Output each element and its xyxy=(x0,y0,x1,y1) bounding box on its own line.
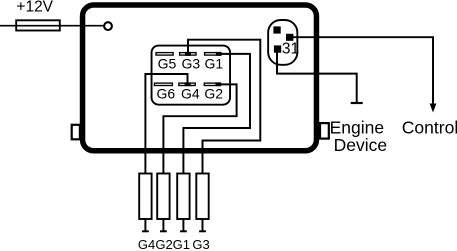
glow plug G1 lower lead xyxy=(182,219,184,231)
engine device terminal bar xyxy=(351,102,363,104)
left mounting tab xyxy=(72,125,80,140)
connector 31 outline xyxy=(268,20,297,65)
svg-text:G3: G3 xyxy=(182,56,201,72)
svg-text:G3: G3 xyxy=(192,237,209,251)
pin bar G6 xyxy=(154,83,172,85)
glow plug G3 terminal bar xyxy=(199,230,206,232)
svg-text:G4: G4 xyxy=(138,237,155,251)
svg-text:Control: Control xyxy=(402,118,457,138)
glow plug G1 terminal bar xyxy=(180,230,187,232)
wire G3 pin to glow plug G3 xyxy=(188,40,260,174)
node 30 terminal circle xyxy=(104,22,112,30)
svg-text:+12V: +12V xyxy=(16,0,53,16)
pin bar G5 xyxy=(156,53,173,56)
connector 31 pin square right xyxy=(286,34,293,41)
svg-text:G4: G4 xyxy=(181,86,200,102)
svg-text:G2: G2 xyxy=(155,237,172,251)
svg-text:31: 31 xyxy=(282,40,299,57)
right mounting tab xyxy=(320,123,329,139)
svg-text:G6: G6 xyxy=(156,86,175,102)
glow plug G4 body xyxy=(139,174,151,220)
wire control output to arrow xyxy=(293,37,434,105)
connector 31 pin square top-left xyxy=(273,26,280,33)
junction nub G4 bar / wire xyxy=(185,82,191,86)
glow plug G1 body xyxy=(177,174,189,220)
wire G1 pin to glow plug G1 xyxy=(183,54,250,174)
connector block outline xyxy=(152,46,231,105)
glow plug G4 terminal bar xyxy=(142,230,149,232)
pin bar G1 xyxy=(205,53,221,56)
glow plug G3 lower lead xyxy=(202,219,204,231)
pin bar G2 xyxy=(204,83,220,85)
glow plug G2 body xyxy=(157,174,169,220)
svg-text:G2: G2 xyxy=(204,86,223,102)
wire G2 pin to glow plug G2 xyxy=(163,84,236,174)
arrowhead control xyxy=(430,104,437,113)
svg-text:G1: G1 xyxy=(173,237,190,251)
glow plug G3 body xyxy=(196,174,208,220)
svg-text:G1: G1 xyxy=(204,56,223,72)
junction nub G1 bar / wire xyxy=(216,52,222,56)
glow plug G4 lower lead xyxy=(144,219,146,231)
svg-text:Device: Device xyxy=(334,135,388,155)
relay box (main unit outline) xyxy=(83,5,317,151)
wire engine device output xyxy=(277,53,357,104)
svg-text:G5: G5 xyxy=(158,56,177,72)
wire G4 pin to glow plug G4 xyxy=(145,74,187,174)
junction nub G2 bar / wire xyxy=(216,82,222,86)
pin bar G3 xyxy=(180,53,196,56)
pin bar G4 xyxy=(179,83,195,85)
wire +12V feed xyxy=(0,25,106,27)
connector 31 pin square bottom-left xyxy=(274,45,281,52)
fuse F1 xyxy=(16,20,60,30)
glow plug G2 terminal bar xyxy=(160,230,167,232)
glow plug G2 lower lead xyxy=(162,219,164,231)
junction nub G3 bar / wire xyxy=(185,52,191,56)
